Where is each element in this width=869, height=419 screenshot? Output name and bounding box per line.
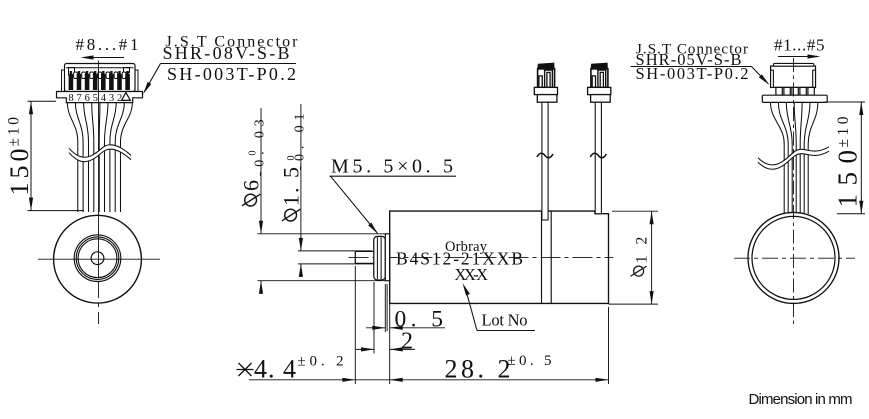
terminal 2 (588, 63, 611, 103)
arrow pin order right (778, 56, 818, 58)
svg-text:3: 3 (109, 93, 114, 104)
connector J1 housing (SHR-08V-S-B, 8-pin, left view) (62, 64, 139, 92)
crosshair horizontal right view (dash-dot) (734, 257, 855, 259)
wire break (wavy) lead 2 (590, 153, 606, 157)
svg-text:150: 150 (5, 149, 34, 196)
rear seam lines (541, 211, 543, 303)
svg-text:6: 6 (85, 93, 90, 104)
svg-text:0: 0 (248, 151, 259, 156)
dimension φ1.5 -0.01 (298, 104, 374, 277)
label J.S.T connector right (636, 42, 749, 83)
svg-text:-0. 03: -0. 03 (253, 119, 268, 176)
leader arrow to J1 (145, 64, 161, 92)
svg-text:Lot No: Lot No (482, 311, 528, 330)
svg-text:SH-003T-P0.2: SH-003T-P0.2 (167, 64, 296, 84)
svg-text:±0. 2: ±0. 2 (298, 354, 344, 370)
leader arrow M5.5 (331, 176, 378, 233)
connector J1 centerline (98, 61, 100, 278)
wire break (wavy) lead 1 (537, 153, 553, 157)
svg-text:6: 6 (239, 180, 264, 191)
motor rear view circle (left) (54, 215, 142, 303)
svg-text:8: 8 (68, 93, 73, 104)
reference mark (kome) (237, 363, 254, 376)
svg-text:±0. 5: ±0. 5 (508, 353, 552, 369)
connector J1 base (57, 92, 143, 103)
svg-text:0: 0 (286, 156, 297, 161)
svg-text:Dimension in mm: Dimension in mm (749, 391, 853, 408)
leader Lot No (466, 291, 477, 331)
arrow pin order left (83, 57, 124, 59)
dimension φ12 (609, 211, 659, 304)
svg-text:1. 5: 1. 5 (279, 167, 304, 206)
svg-text:±10: ±10 (835, 116, 852, 147)
dimension φ6 -0.03 (258, 108, 386, 294)
wire bundle left (8 leads) (67, 103, 132, 212)
crosshair horizontal left view (38, 258, 160, 260)
connector J1 pin1 triangle mark (121, 93, 130, 101)
svg-text:28. 2: 28. 2 (445, 355, 511, 384)
dimension text 4.4 ±0.2 (254, 354, 344, 384)
svg-text:±10: ±10 (6, 117, 23, 147)
lead wire 2 (595, 102, 601, 214)
svg-text:2: 2 (401, 328, 413, 354)
dimension 0.5 (366, 284, 445, 384)
wire bundle right (5 leads) (771, 102, 818, 214)
svg-text:SHR-08V-S-B: SHR-08V-S-B (163, 43, 290, 63)
flange disc φ6 (385, 234, 389, 281)
connector J2 centerline (dash-dot) (793, 58, 795, 324)
dimension 4.4±0.2 / 28.2±0.5 baseline (249, 266, 609, 384)
lead wire 1 (542, 102, 548, 221)
threaded bushing M5.5 (374, 236, 386, 280)
connector J1 comb teeth (74, 72, 126, 79)
motor centerline (349, 256, 614, 258)
dimension text 28.2 ±0.5 (445, 353, 552, 384)
motor front view circle (right) (748, 212, 839, 303)
dimension 2 (356, 282, 415, 354)
svg-text:2: 2 (117, 93, 122, 104)
terminal 1 (534, 63, 557, 103)
leader arrow to J2 (752, 67, 769, 84)
svg-text:-0. 01: -0. 01 (293, 114, 308, 171)
svg-text:4: 4 (101, 93, 107, 104)
dimension 150±10 (right) (825, 102, 866, 214)
J2 comb teeth (776, 87, 814, 95)
connector J1 pin numbers (68, 93, 122, 104)
shaft hole (91, 252, 104, 265)
svg-text:7: 7 (76, 93, 81, 104)
svg-text:M5. 5×0. 5: M5. 5×0. 5 (331, 156, 453, 178)
connector J1 contacts comb (69, 71, 130, 90)
motor body (390, 211, 609, 303)
svg-text:12: 12 (634, 237, 651, 264)
svg-text:#1...#5: #1...#5 (774, 36, 825, 55)
svg-text:XX-X: XX-X (455, 265, 489, 284)
label J.S.T connector left (163, 33, 299, 84)
svg-text:4. 4: 4. 4 (254, 355, 296, 384)
svg-text:5: 5 (93, 93, 98, 104)
connector J2 (SHR-05V-S-B, 5-pin, rear view) (762, 63, 827, 102)
svg-text:#8...#1: #8...#1 (76, 35, 139, 54)
svg-text:150: 150 (833, 150, 863, 208)
J2 base (762, 95, 827, 102)
dimension 150±10 (left) (28, 101, 85, 210)
wire break (wavy) left (69, 145, 131, 162)
shaft (φ1.5) (355, 251, 374, 263)
bearing boss rings (74, 235, 121, 282)
wire break (wavy) right (758, 147, 829, 169)
